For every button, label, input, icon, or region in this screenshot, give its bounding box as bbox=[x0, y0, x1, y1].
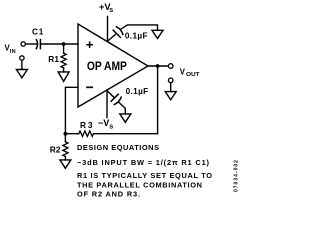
svg-text:0.1µF: 0.1µF bbox=[126, 87, 149, 96]
svg-text:IN: IN bbox=[10, 49, 16, 55]
svg-text:OF R2 AND R3.: OF R2 AND R3. bbox=[77, 190, 140, 199]
svg-text:C1: C1 bbox=[32, 26, 44, 36]
svg-text:OP AMP: OP AMP bbox=[87, 61, 127, 73]
svg-text:R1 IS TYPICALLY SET EQUAL TO: R1 IS TYPICALLY SET EQUAL TO bbox=[77, 171, 212, 180]
svg-text:R1: R1 bbox=[48, 54, 59, 64]
svg-text:−3dB INPUT BW = 1/(2π R1 C1): −3dB INPUT BW = 1/(2π R1 C1) bbox=[77, 158, 210, 167]
svg-text:OUT: OUT bbox=[186, 72, 200, 78]
svg-text:V: V bbox=[180, 67, 186, 76]
svg-text:S: S bbox=[109, 125, 113, 131]
svg-text:THE PARALLEL COMBINATION: THE PARALLEL COMBINATION bbox=[77, 180, 202, 189]
svg-text:0.1µF: 0.1µF bbox=[125, 32, 148, 41]
svg-text:DESIGN EQUATIONS: DESIGN EQUATIONS bbox=[77, 143, 159, 152]
svg-text:S: S bbox=[109, 8, 113, 14]
svg-text:07034-002: 07034-002 bbox=[234, 159, 239, 192]
svg-text:−V: −V bbox=[98, 118, 109, 128]
svg-text:R2: R2 bbox=[50, 144, 61, 154]
